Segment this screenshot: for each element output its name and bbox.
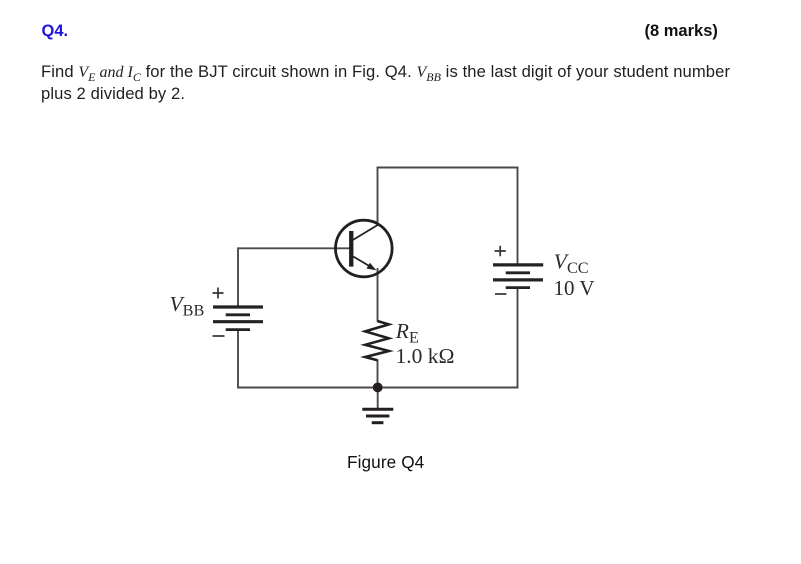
svg-text:VBB: VBB: [170, 292, 205, 319]
resistor RE: [365, 321, 389, 360]
svg-text:10 V: 10 V: [554, 276, 595, 300]
ground: [362, 409, 393, 423]
wire top (collector to right rail): [377, 167, 519, 169]
VCC plus terminal: [495, 246, 506, 257]
wire right rail top (top wire down to VCC battery): [517, 167, 519, 264]
question paragraph: [41, 61, 730, 104]
battery VCC: [493, 265, 543, 288]
wire left rail top (base corner down to VBB battery): [237, 247, 239, 305]
wire base (VBB to transistor base): [238, 247, 351, 249]
svg-text:RE: RE: [395, 319, 419, 346]
VBB minus terminal: [213, 335, 225, 337]
caption Figure Q4: [347, 454, 424, 471]
VBB plus terminal: [213, 288, 224, 299]
VCC minus terminal: [495, 293, 507, 295]
svg-text:VCC: VCC: [554, 250, 589, 277]
wire right rail bottom (VCC battery down to bottom wire): [517, 288, 519, 389]
node junction dot: [373, 383, 383, 393]
battery VBB: [213, 307, 263, 330]
wire left rail bottom (VBB battery down to bottom wire): [237, 330, 239, 389]
heading Q4.: [42, 23, 69, 40]
wire ground stub: [377, 388, 379, 409]
transistor Q1 (NPN): [336, 220, 393, 277]
heading (8 marks): [645, 23, 718, 40]
wire bottom (left rail to right rail): [237, 387, 518, 389]
wire resistor to bottom node: [377, 360, 379, 388]
svg-text:1.0 kΩ: 1.0 kΩ: [396, 344, 455, 368]
wire emitter (transistor down to resistor): [377, 268, 379, 322]
wire collector (top wire down to transistor): [377, 167, 379, 226]
